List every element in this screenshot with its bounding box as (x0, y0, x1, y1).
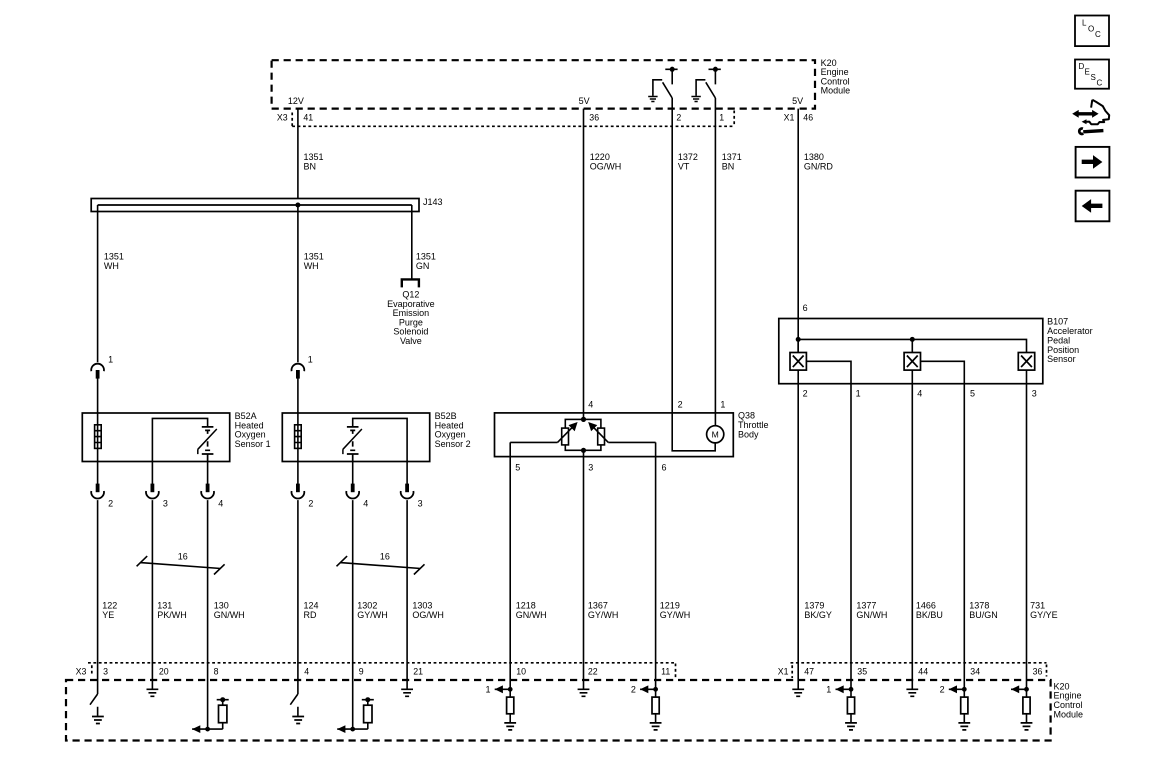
wire B52A pin4 to connector (207, 462, 209, 485)
svg-text:1: 1 (108, 355, 113, 365)
svg-text:YE: YE (102, 610, 114, 620)
svg-text:X1: X1 (784, 112, 795, 122)
svg-text:PK/WH: PK/WH (157, 610, 187, 620)
wire 1351 GN (J143 to Q12) (411, 205, 413, 279)
svg-text:GN/WH: GN/WH (516, 610, 547, 620)
svg-text:1: 1 (826, 685, 831, 695)
wire 1218 GN/WH (Q38 5 to ECM 10) (509, 442, 511, 680)
svg-text:X3: X3 (277, 112, 288, 122)
ECM pin 8 internal resistor and signal arrow (192, 680, 229, 733)
wire 1351 WH (J143 left leg) (97, 205, 99, 362)
svg-text:46: 46 (803, 112, 813, 122)
svg-text:5: 5 (970, 388, 975, 398)
svg-text:S: S (1091, 73, 1096, 82)
wire 1367 GY/WH (Q38 3 to ECM 22) (583, 450, 585, 680)
B107 tap to pin 5 (921, 361, 965, 680)
svg-text:RD: RD (304, 610, 317, 620)
B52B internal wire pin3 riser (353, 418, 407, 484)
svg-text:9: 9 (359, 666, 364, 676)
svg-text:WH: WH (304, 261, 319, 271)
svg-text:1: 1 (856, 388, 861, 398)
ECM pin 36 internal resistor, arrow, ground (1011, 680, 1032, 730)
X3 connector strip (bottom left) (88, 663, 676, 679)
B52A heater element (95, 425, 102, 449)
svg-text:GY/WH: GY/WH (357, 610, 388, 620)
wire B52B pin4 to connector (352, 462, 354, 485)
svg-text:GN/WH: GN/WH (214, 610, 245, 620)
wire 1380 GN/RD (pin 46 to B107 pin 6) (797, 109, 799, 353)
wire into B52A heater (97, 378, 99, 484)
svg-text:BN: BN (722, 161, 735, 171)
wire into B52B heater (297, 378, 299, 484)
svg-text:Body: Body (738, 429, 759, 439)
TP wiper arrow right (593, 426, 609, 442)
switch S2 inside ECM (pin 1) (691, 67, 720, 102)
ECM pin 44 ground (906, 680, 918, 696)
svg-text:3: 3 (103, 666, 108, 676)
svg-text:C: C (1097, 79, 1103, 88)
svg-text:4: 4 (588, 400, 593, 410)
svg-text:X1: X1 (778, 666, 789, 676)
svg-text:X3: X3 (76, 666, 87, 676)
svg-text:16: 16 (178, 552, 188, 562)
inline connector pin 1 (B52A) (91, 364, 104, 379)
harness slash mark 16 (left) (137, 556, 225, 574)
svg-text:E: E (1085, 68, 1090, 77)
svg-text:Sensor: Sensor (1047, 354, 1076, 364)
svg-text:21: 21 (413, 666, 423, 676)
ECM pin 47 ground (792, 680, 804, 696)
Q38 motor wire (pin 1) (714, 413, 716, 426)
splice pack J143 (91, 199, 419, 212)
svg-text:OG/WH: OG/WH (412, 610, 444, 620)
B52B oxygen sensing cell (343, 427, 362, 462)
svg-text:36: 36 (1033, 666, 1043, 676)
svg-text:36: 36 (589, 112, 599, 122)
wire 1466 BK/BU (B107 4 to ECM 44) (911, 370, 913, 680)
B52A Heated Oxygen Sensor 1 box (82, 413, 229, 462)
DESC button (1075, 60, 1109, 89)
harness slash mark 16 (right) (337, 556, 425, 574)
ECM pin 20 ground (147, 680, 159, 696)
ECM pin 11 internal resistor, arrow 2, ground (640, 680, 661, 730)
inline connectors below B52A: pins 2,3,4 (91, 484, 104, 499)
svg-text:OG/WH: OG/WH (590, 161, 622, 171)
svg-text:O: O (1088, 24, 1094, 33)
LOC button (1075, 16, 1109, 47)
svg-text:2: 2 (308, 499, 313, 509)
svg-text:BK/BU: BK/BU (916, 610, 943, 620)
svg-text:J143: J143 (423, 197, 443, 207)
wire 1371 BN (switch to Q38 pin 1) (714, 98, 716, 413)
svg-text:GY/YE: GY/YE (1030, 610, 1058, 620)
B52A oxygen sensing cell (198, 427, 217, 462)
wire 130 GN/WH (B52A 4 to ECM 8) (207, 500, 209, 680)
Q38 Throttle Body box (495, 413, 734, 457)
svg-text:L: L (1082, 18, 1087, 27)
svg-text:4: 4 (304, 666, 309, 676)
svg-text:GY/WH: GY/WH (588, 610, 619, 620)
svg-text:1: 1 (719, 112, 724, 122)
svg-text:1: 1 (485, 685, 490, 695)
svg-text:6: 6 (662, 463, 667, 473)
svg-text:GN/WH: GN/WH (856, 610, 887, 620)
svg-text:M: M (712, 430, 719, 440)
Q38 TP sensor bridge frame (565, 419, 601, 450)
svg-text:2: 2 (940, 685, 945, 695)
wire 1219 GY/WH (Q38 6 to ECM 11) (655, 442, 657, 680)
Q38 junction dots (581, 417, 586, 422)
svg-text:BN: BN (304, 161, 317, 171)
svg-text:6: 6 (803, 303, 808, 313)
svg-text:44: 44 (918, 666, 928, 676)
switch S1 inside ECM (pin 2) (648, 67, 677, 102)
X3 connector strip (top) (292, 111, 734, 127)
svg-text:47: 47 (804, 666, 814, 676)
K20 Engine Control Module (top) dashed box (272, 60, 815, 108)
wire 1220 OG/WH (pin 36 to Q38) (583, 109, 585, 420)
svg-text:BK/GY: BK/GY (804, 610, 832, 620)
svg-text:5V: 5V (792, 96, 803, 106)
svg-text:C: C (1095, 30, 1101, 39)
svg-text:2: 2 (678, 400, 683, 410)
svg-text:5V: 5V (579, 96, 590, 106)
K20 Engine Control Module (bottom) dashed box (66, 680, 1051, 741)
svg-text:2: 2 (631, 685, 636, 695)
ECM pin 4 internal switch to ground (290, 680, 298, 716)
X1 connector strip (bottom right) (791, 663, 1047, 678)
svg-text:Module: Module (1054, 709, 1084, 719)
svg-text:GN: GN (416, 261, 430, 271)
svg-text:WH: WH (104, 261, 119, 271)
svg-text:3: 3 (418, 499, 423, 509)
ECM pin 9 internal resistor and signal arrow (337, 680, 374, 733)
Q38 internal arm to pin 6 (608, 441, 655, 443)
svg-text:20: 20 (159, 666, 169, 676)
B107 sensor element 3 (1018, 353, 1034, 371)
svg-text:GN/RD: GN/RD (804, 161, 834, 171)
B107 sensor element 1 (790, 353, 806, 371)
svg-text:Sensor 1: Sensor 1 (235, 439, 271, 449)
svg-text:3: 3 (1032, 388, 1037, 398)
svg-text:Valve: Valve (400, 336, 422, 346)
wire 124 RD (B52B 2 to ECM 4) (297, 500, 299, 680)
svg-text:2: 2 (803, 388, 808, 398)
TP sensor resistor left (562, 428, 569, 445)
wire 731 GY/YE (B107 3 to ECM 36) (1026, 370, 1028, 680)
wire 1379 BK/GY (B107 2 to ECM 47) (797, 370, 799, 680)
svg-text:12V: 12V (288, 96, 304, 106)
wire 1372 VT (switch to Q38 pin 2) (671, 98, 673, 413)
svg-text:4: 4 (363, 499, 368, 509)
B107 sensor element 2 (904, 353, 920, 371)
svg-text:1: 1 (720, 400, 725, 410)
motor M (707, 426, 724, 443)
wire 1303 OG/WH (B52B 3 to ECM 21) (406, 500, 408, 680)
svg-text:5: 5 (515, 463, 520, 473)
svg-text:Sensor 2: Sensor 2 (435, 439, 471, 449)
wire 1302 GY/WH (B52B 4 to ECM 9) (352, 500, 354, 680)
svg-text:4: 4 (917, 388, 922, 398)
svg-text:2: 2 (108, 499, 113, 509)
svg-text:Module: Module (821, 86, 851, 96)
ECM pin 34 internal resistor, arrow 2, ground (949, 680, 970, 730)
svg-text:22: 22 (588, 666, 598, 676)
svg-text:4: 4 (218, 499, 223, 509)
svg-text:2: 2 (676, 112, 681, 122)
Q12 Evaporative Emission Purge Solenoid Valve terminal (402, 279, 419, 287)
svg-text:8: 8 (214, 666, 219, 676)
ECM pin 21 ground (401, 680, 413, 696)
junction dot on J143 (295, 203, 300, 208)
wire 1351 BN (pin 41 to J143) (297, 109, 299, 199)
forward arrow button (1076, 147, 1110, 178)
svg-text:BU/GN: BU/GN (969, 610, 998, 620)
svg-text:16: 16 (380, 552, 390, 562)
svg-text:10: 10 (516, 666, 526, 676)
wire 1351 WH (J143 center leg) (297, 205, 299, 362)
inline connectors below B52B: pins 2,4,3 (292, 484, 305, 499)
Q38 motor circuit wire (pin 2) (672, 413, 715, 451)
B52A internal wire pin3 riser (152, 418, 207, 484)
svg-text:VT: VT (678, 161, 690, 171)
B107 Accelerator Pedal Position Sensor box (779, 319, 1043, 384)
B107 tap to pin 1 (806, 361, 851, 680)
wire 131 PK/WH (B52A 3 to ECM 20) (151, 500, 153, 680)
svg-text:GY/WH: GY/WH (660, 610, 691, 620)
connector view icon (arrows and wrench) (1072, 100, 1109, 134)
svg-text:1: 1 (308, 355, 313, 365)
ECM pin 3 internal switch to ground (90, 680, 98, 716)
svg-text:3: 3 (163, 499, 168, 509)
wire 122 YE (B52A 2 to ECM 3) (97, 500, 99, 680)
back arrow button (1076, 191, 1110, 222)
ECM pin 35 internal resistor, arrow 1, ground (836, 680, 857, 730)
svg-text:35: 35 (857, 666, 867, 676)
B52B heater element (295, 425, 302, 449)
ECM pin 10 internal resistor, arrow 1, ground (495, 680, 516, 730)
svg-text:3: 3 (588, 463, 593, 473)
B107 internal bus (798, 339, 1026, 352)
inline connector pin 1 (B52B) (292, 364, 305, 379)
TP sensor resistor right (598, 428, 605, 445)
svg-text:11: 11 (661, 666, 670, 676)
TP wiper arrow left (558, 426, 574, 442)
svg-text:34: 34 (970, 666, 980, 676)
ECM pin 22 ground (578, 680, 590, 696)
Q38 internal arm to pin 5 (510, 441, 557, 443)
svg-text:41: 41 (303, 112, 313, 122)
B52B Heated Oxygen Sensor 2 box (282, 413, 429, 462)
